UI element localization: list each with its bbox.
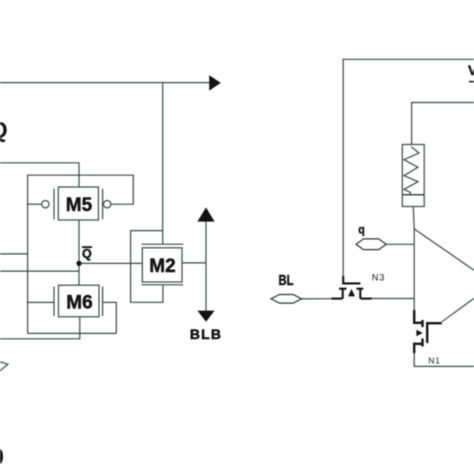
svg-text:M6: M6 [66, 293, 92, 314]
svg-text:N1: N1 [428, 355, 440, 365]
svg-text:N3: N3 [372, 272, 385, 282]
svg-text:BL: BL [279, 271, 294, 288]
svg-text:M5: M5 [66, 195, 93, 216]
svg-text:Q: Q [82, 247, 92, 261]
svg-text:V: V [468, 63, 474, 78]
svg-text:q: q [358, 224, 365, 237]
svg-text:M2: M2 [149, 256, 175, 277]
svg-text:Q: Q [0, 117, 8, 142]
svg-text:BLB: BLB [190, 326, 222, 342]
svg-text:0: 0 [0, 443, 4, 469]
